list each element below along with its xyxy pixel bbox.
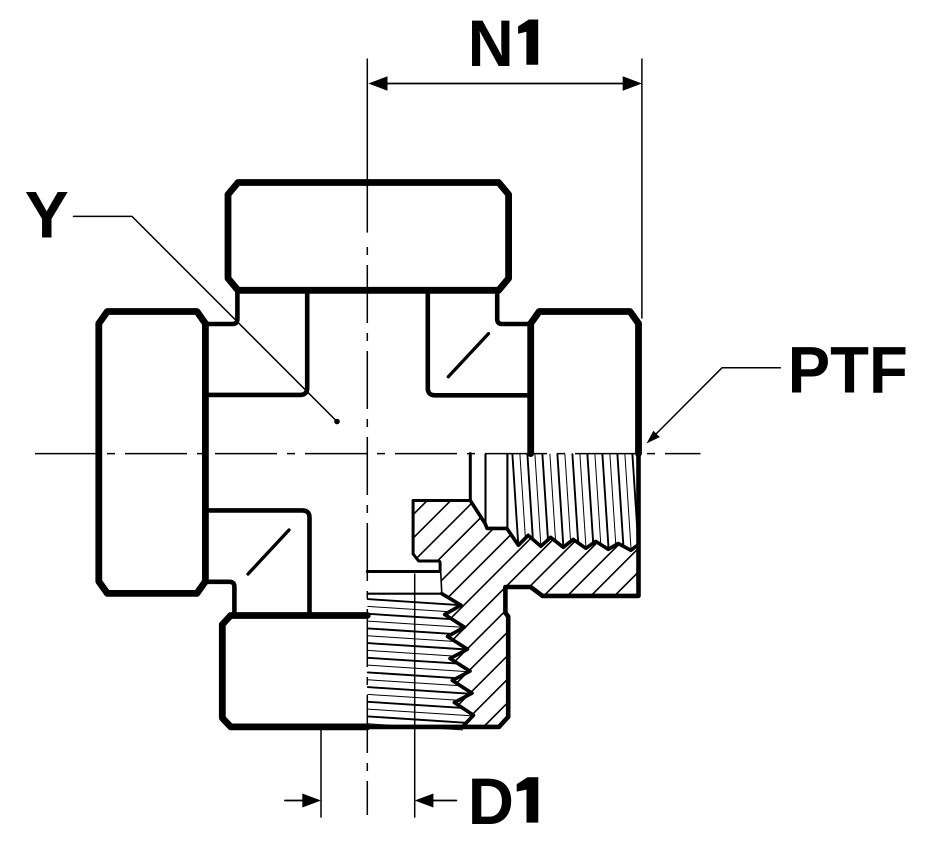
D1 left extension line (320, 729, 322, 817)
right nut upper half (external view above centerline) (531, 312, 639, 454)
D1 arrows (285, 800, 303, 802)
top nut (hex body, external view) (228, 183, 509, 291)
bottom port thread lead-in line (368, 593, 442, 595)
chamfer indicator top-right quadrant (448, 334, 488, 377)
bottom port female threads (thin flank lines) (368, 599, 473, 730)
bottom nut left half (external view left of centerline) (222, 616, 367, 727)
horizontal centerline (35, 453, 701, 455)
N1 right extension line (641, 59, 643, 318)
top port neck left side with step to left nut (205, 290, 237, 324)
D1 right extension line (414, 574, 416, 817)
bottom port thread root profile (442, 594, 474, 727)
N1 dimension line with arrows (387, 83, 623, 85)
PTF leader line with arrow (654, 368, 780, 436)
left port neck bottom step to bottom port neck (205, 582, 234, 616)
vertical centerline / N1 left extension line (366, 59, 368, 232)
right port thread root profile (470, 501, 638, 551)
svg-text:N: N (468, 7, 514, 81)
svg-text:Y: Y (25, 179, 69, 253)
body inside corner bottom-left (205, 510, 309, 615)
right port face and bottom outline of sectioned body (367, 454, 638, 727)
left nut (hex body, external view) (99, 312, 206, 594)
right port section: tube stop face and counterbore shoulder (367, 454, 470, 572)
Y leader line with dot (74, 216, 338, 421)
body inside corner top-left (205, 290, 307, 395)
right port thread lead-in lines (484, 455, 486, 524)
right port female threads (thin flank lines) (512, 454, 638, 550)
svg-text:PTF: PTF (788, 334, 908, 408)
top port neck right side with step to right nut (497, 290, 531, 324)
svg-text:D: D (468, 765, 514, 839)
body inside corner top-right (428, 290, 531, 395)
bore lead edge right port (441, 572, 442, 594)
chamfer indicator bottom-left quadrant (248, 530, 289, 574)
